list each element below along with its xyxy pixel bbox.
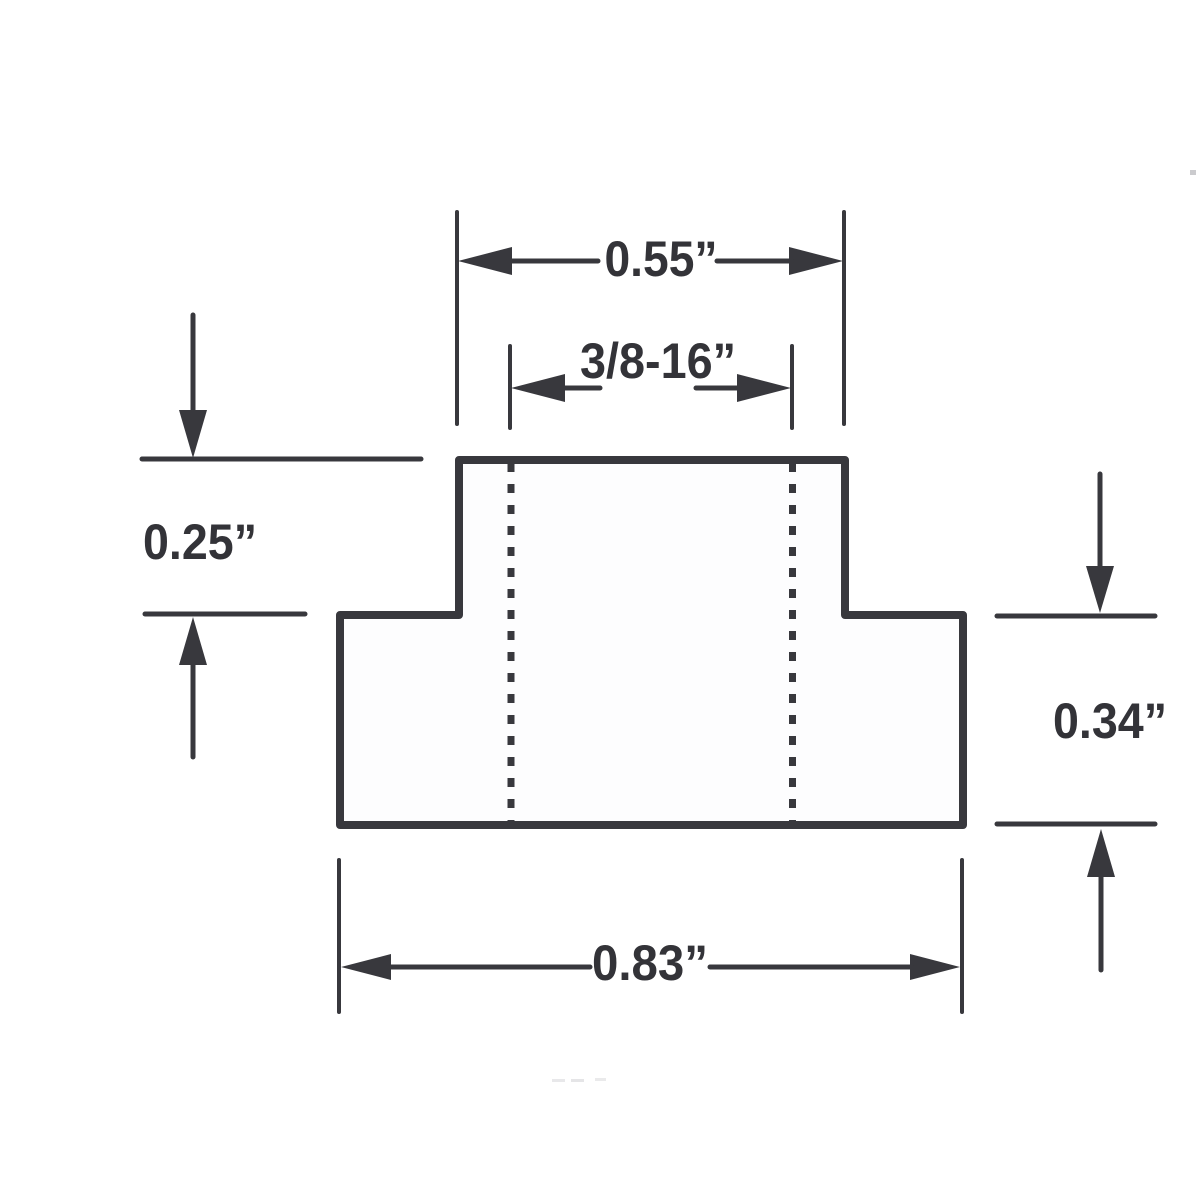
svg-text:0.34”: 0.34” (1053, 693, 1167, 749)
svg-text:0.83”: 0.83” (592, 935, 708, 991)
svg-text:0.55”: 0.55” (605, 231, 718, 287)
svg-text:0.25”: 0.25” (143, 514, 257, 570)
svg-text:3/8-16”: 3/8-16” (580, 333, 736, 389)
